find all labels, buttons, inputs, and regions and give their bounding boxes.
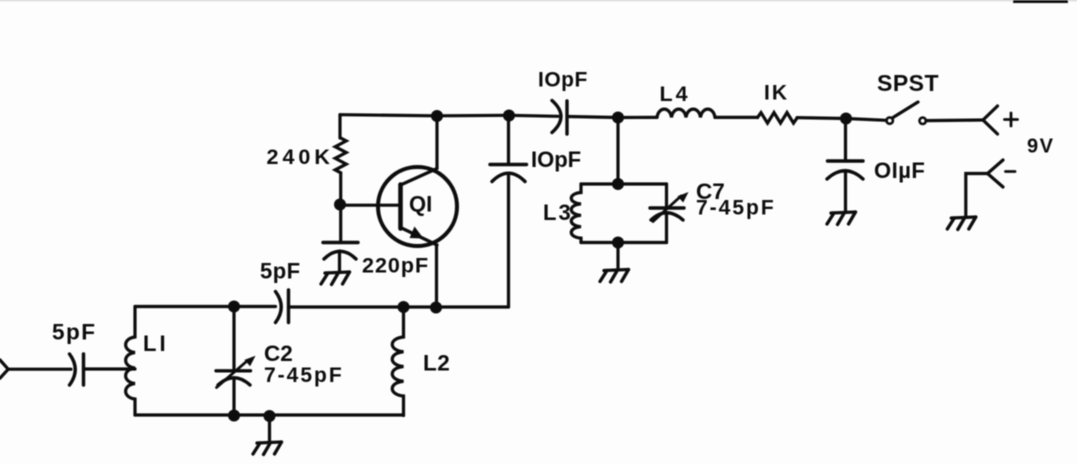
node dot rail L3 bbox=[612, 112, 624, 124]
svg-text:IOpF: IOpF bbox=[531, 147, 581, 172]
inductor L3 bbox=[571, 184, 581, 243]
svg-text:L2: L2 bbox=[423, 351, 450, 376]
capacitor C2 straight plate bbox=[216, 369, 251, 372]
svg-text:OIµF: OIµF bbox=[874, 158, 925, 183]
capacitor 10pF series straight plate bbox=[565, 101, 568, 134]
svg-text:L4: L4 bbox=[660, 82, 691, 106]
transistor Q1 emitter stroke bbox=[401, 228, 438, 246]
svg-text:C2: C2 bbox=[264, 341, 293, 366]
inductor L4 bbox=[657, 109, 715, 117]
resistor 240K leads bbox=[338, 115, 341, 138]
node dot C2 bottom bbox=[228, 410, 240, 422]
capacitor C7 straight plate bbox=[650, 206, 684, 209]
wire 5pF to L1 bbox=[84, 367, 136, 370]
capacitor C2 arrow bbox=[217, 361, 248, 388]
resistor 1K bbox=[758, 113, 798, 124]
ground L3 bbox=[600, 270, 629, 283]
capacitor C2 top lead bbox=[232, 307, 235, 371]
svg-text:LI: LI bbox=[143, 331, 169, 356]
capacitor C2 bottom lead bbox=[232, 379, 235, 416]
capacitor 5pF tank, curved plate bbox=[276, 292, 282, 323]
capacitor 220pF bottom lead bbox=[338, 251, 341, 271]
wire L3 tank bottom bbox=[581, 241, 667, 244]
transistor Q1 collector stroke bbox=[401, 169, 438, 186]
capacitor C2 curved plate bbox=[218, 378, 250, 385]
capacitor 5pF tank, straight plate bbox=[287, 290, 290, 323]
wire tank top right bbox=[289, 305, 509, 308]
ground stem L3 bbox=[616, 243, 619, 270]
switch SPST throw bbox=[920, 118, 926, 124]
node dot L3 tank top bbox=[612, 178, 624, 190]
header bar bbox=[1013, 0, 1068, 3]
capacitor 220pF curved plate bbox=[324, 251, 356, 259]
svg-text:QI: QI bbox=[409, 192, 432, 217]
wire collector bbox=[435, 116, 438, 168]
svg-text:SPST: SPST bbox=[877, 70, 939, 96]
node dot base bbox=[334, 199, 346, 211]
node dot collector bbox=[431, 110, 443, 122]
node dot L2 top bbox=[398, 301, 410, 313]
capacitor 5pF input, curved plate bbox=[70, 354, 76, 385]
node dot C2 top bbox=[228, 301, 240, 313]
wire L3 tank top bbox=[581, 182, 667, 185]
switch SPST pole bbox=[887, 117, 893, 123]
switch SPST lever bbox=[893, 102, 918, 117]
page top rule bbox=[0, 0, 1077, 2]
svg-text:5pF: 5pF bbox=[260, 259, 301, 284]
svg-text:9V: 9V bbox=[1027, 136, 1054, 158]
wire input to 5pF bbox=[8, 368, 71, 371]
capacitor 10pF shunt straight plate bbox=[490, 163, 527, 166]
capacitor 10pF series curved plate bbox=[552, 101, 561, 133]
wire L4 to 1K bbox=[715, 116, 758, 119]
transistor Q1 base bar bbox=[398, 185, 403, 229]
wire tank bottom bbox=[135, 413, 404, 416]
svg-text:7-45pF: 7-45pF bbox=[264, 364, 344, 387]
wire top rail bbox=[340, 115, 558, 117]
plus sign bbox=[1005, 113, 1018, 126]
capacitor 5pF input, straight plate bbox=[82, 354, 85, 385]
capacitor C7 arrow bbox=[653, 196, 681, 222]
wire 1K to switch bbox=[797, 118, 886, 121]
svg-text:220pF: 220pF bbox=[362, 254, 429, 278]
svg-text:IOpF: IOpF bbox=[538, 69, 588, 92]
svg-text:L3: L3 bbox=[543, 200, 573, 225]
inductor L2 bbox=[392, 307, 403, 416]
wire switch to battery bbox=[926, 118, 983, 122]
wire top rail mid bbox=[568, 117, 657, 118]
wire emitter bbox=[435, 246, 438, 307]
capacitor 01uF bottom lead bbox=[844, 171, 847, 212]
node dot ground tank bbox=[264, 410, 276, 422]
input terminal bbox=[0, 360, 8, 378]
capacitor 01uF top lead bbox=[844, 119, 847, 162]
ground 220pF bbox=[321, 272, 350, 285]
ground stem tank bbox=[268, 416, 271, 441]
svg-text:5pF: 5pF bbox=[52, 320, 97, 345]
ground battery bbox=[947, 217, 976, 230]
wire negative to ground bbox=[966, 174, 988, 217]
capacitor 01uF curved plate bbox=[827, 171, 863, 179]
transistor Q1 circle bbox=[378, 167, 457, 246]
capacitor 01uF straight plate bbox=[828, 159, 864, 162]
node dot L3 tank bottom bbox=[612, 237, 624, 249]
capacitor C7 bottom lead bbox=[665, 214, 668, 243]
inductor L1 bbox=[126, 307, 135, 416]
svg-text:IK: IK bbox=[764, 82, 789, 105]
wire to L3 tank bbox=[616, 118, 619, 185]
capacitor 10pF shunt curved plate bbox=[492, 173, 525, 181]
node dot 10pF shunt bbox=[503, 110, 515, 122]
svg-text:240K: 240K bbox=[267, 145, 334, 169]
wire base bbox=[340, 204, 400, 207]
node dot emitter bottom bbox=[430, 302, 442, 314]
capacitor 220pF straight plate bbox=[323, 241, 358, 244]
resistor 240K bbox=[335, 138, 346, 173]
capacitor C7 top lead bbox=[665, 184, 668, 208]
wire tank top left bbox=[135, 305, 276, 308]
ground tank bbox=[253, 442, 282, 455]
transistor Q1 emitter arrow bbox=[410, 227, 424, 239]
ground 01uF bbox=[827, 212, 856, 225]
capacitor C7 curved plate bbox=[651, 213, 683, 220]
capacitor 10pF shunt bottom lead bbox=[507, 174, 510, 307]
svg-text:7-45pF: 7-45pF bbox=[696, 197, 776, 220]
battery negative terminal bbox=[988, 160, 1004, 187]
capacitor 10pF shunt top lead bbox=[507, 116, 510, 164]
minus sign bbox=[1006, 170, 1016, 173]
battery positive terminal bbox=[983, 106, 998, 134]
node dot 01uF bbox=[840, 113, 852, 125]
